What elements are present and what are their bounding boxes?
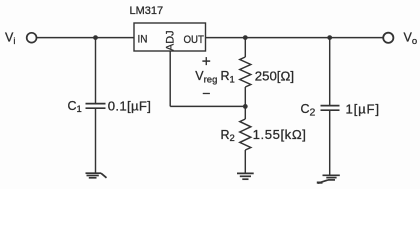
svg-text:LM317: LM317 [130, 5, 164, 17]
wire C2 lower lead [329, 110, 331, 175]
junction C2 top [327, 35, 332, 40]
wire Vi to IN pin [37, 37, 134, 39]
svg-text:IN: IN [138, 33, 148, 45]
wire OUT pin to Vo [206, 37, 384, 39]
wire ADJ pin vertical [169, 51, 171, 106]
terminal Vo [383, 33, 393, 43]
svg-text:0.1[µF]: 0.1[µF] [108, 98, 151, 113]
wire R2 upper lead [244, 106, 246, 119]
wire C2 upper lead [329, 38, 331, 106]
svg-text:250[Ω]: 250[Ω] [255, 68, 294, 83]
capacitor C1 [86, 104, 106, 109]
node A junction R1 R2 ADJ [243, 104, 248, 109]
IC U1 LM317 body [134, 23, 206, 51]
svg-text:−: − [202, 85, 210, 101]
resistor R2 [240, 119, 251, 150]
wire C1 upper lead [95, 38, 97, 104]
wire R1 upper lead [244, 38, 246, 57]
wire ADJ to node A [170, 105, 245, 107]
svg-text:OUT: OUT [184, 34, 205, 46]
terminal Vi [27, 33, 37, 43]
capacitor C2 [321, 106, 340, 111]
wire R1 lower lead [244, 87, 246, 106]
ground R2 [237, 173, 254, 179]
svg-text:1.55[kΩ]: 1.55[kΩ] [253, 127, 307, 142]
junction C1 tap [93, 35, 98, 40]
svg-text:ADJ: ADJ [165, 31, 177, 52]
svg-text:1[µF]: 1[µF] [346, 101, 380, 116]
svg-text:+: + [202, 53, 211, 70]
junction R1 top [243, 35, 248, 40]
resistor R1 [240, 57, 251, 87]
wire C1 lower lead [95, 108, 97, 172]
ground C2 [317, 175, 340, 183]
ground C1 [86, 173, 107, 178]
wire R2 lower lead [244, 150, 246, 173]
